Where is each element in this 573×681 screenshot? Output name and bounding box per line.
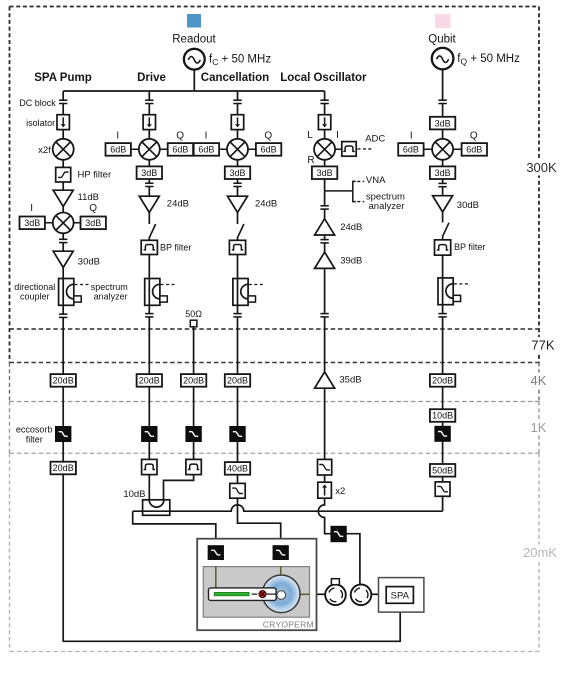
- svg-text:I: I: [116, 131, 119, 142]
- svg-text:6dB: 6dB: [261, 145, 277, 155]
- svg-text:6dB: 6dB: [110, 145, 126, 155]
- svg-text:30dB: 30dB: [457, 200, 479, 211]
- svg-text:Q: Q: [176, 131, 184, 142]
- svg-text:directional: directional: [14, 282, 55, 292]
- svg-text:3dB: 3dB: [85, 218, 101, 228]
- svg-text:3dB: 3dB: [317, 168, 333, 178]
- svg-text:Q: Q: [89, 203, 97, 214]
- svg-text:300K: 300K: [526, 160, 557, 175]
- svg-text:6dB: 6dB: [403, 145, 419, 155]
- svg-text:x2: x2: [335, 486, 345, 497]
- svg-text:BP filter: BP filter: [454, 242, 485, 252]
- svg-text:coupler: coupler: [20, 291, 50, 301]
- svg-text:analyzer: analyzer: [94, 291, 128, 301]
- svg-text:10dB: 10dB: [123, 489, 145, 500]
- svg-text:Readout: Readout: [172, 33, 216, 45]
- svg-text:24dB: 24dB: [255, 198, 277, 209]
- svg-text:x2f: x2f: [38, 145, 51, 156]
- svg-text:20dB: 20dB: [183, 376, 204, 386]
- svg-text:20dB: 20dB: [139, 376, 160, 386]
- svg-text:50Ω: 50Ω: [185, 309, 202, 319]
- svg-text:Drive: Drive: [137, 72, 166, 84]
- svg-text:3dB: 3dB: [435, 168, 451, 178]
- svg-text:SPA Pump: SPA Pump: [34, 72, 92, 84]
- svg-text:Cancellation: Cancellation: [201, 72, 269, 84]
- svg-text:spectrum: spectrum: [91, 282, 128, 292]
- svg-text:VNA: VNA: [366, 175, 386, 186]
- svg-text:Q: Q: [470, 131, 478, 142]
- svg-text:eccosorb: eccosorb: [16, 424, 53, 434]
- svg-text:isolator: isolator: [26, 118, 55, 128]
- svg-text:20dB: 20dB: [432, 376, 453, 386]
- svg-text:20dB: 20dB: [53, 463, 74, 473]
- svg-text:L: L: [307, 130, 313, 141]
- svg-text:I: I: [336, 130, 339, 141]
- svg-text:ADC: ADC: [365, 134, 385, 145]
- svg-text:10dB: 10dB: [432, 411, 453, 421]
- svg-text:35dB: 35dB: [339, 374, 361, 385]
- svg-text:fQ + 50 MHz: fQ + 50 MHz: [457, 53, 520, 67]
- svg-text:Q: Q: [264, 131, 272, 142]
- svg-text:BP filter: BP filter: [160, 243, 191, 253]
- svg-text:SPA: SPA: [391, 591, 410, 602]
- svg-text:3dB: 3dB: [229, 168, 245, 178]
- svg-text:Local Oscillator: Local Oscillator: [280, 72, 367, 84]
- svg-text:Qubit: Qubit: [428, 33, 456, 45]
- svg-text:6dB: 6dB: [466, 145, 482, 155]
- svg-text:6dB: 6dB: [172, 145, 188, 155]
- svg-text:CRYOPERM: CRYOPERM: [263, 620, 314, 630]
- svg-text:R: R: [307, 155, 314, 166]
- svg-text:DC block: DC block: [19, 98, 56, 108]
- svg-text:1K: 1K: [531, 420, 547, 435]
- svg-text:11dB: 11dB: [78, 192, 99, 203]
- svg-text:I: I: [410, 131, 413, 142]
- svg-text:4K: 4K: [531, 373, 547, 388]
- svg-text:fC + 50 MHz: fC + 50 MHz: [209, 53, 271, 67]
- svg-text:24dB: 24dB: [340, 222, 362, 233]
- svg-text:I: I: [205, 131, 208, 142]
- svg-text:77K: 77K: [531, 338, 554, 353]
- svg-text:20dB: 20dB: [53, 376, 74, 386]
- svg-text:3dB: 3dB: [24, 218, 40, 228]
- svg-text:filter: filter: [26, 435, 43, 445]
- svg-text:30dB: 30dB: [78, 256, 100, 267]
- svg-text:24dB: 24dB: [167, 198, 189, 209]
- svg-text:HP filter: HP filter: [78, 169, 112, 180]
- svg-text:20dB: 20dB: [227, 376, 248, 386]
- svg-text:6dB: 6dB: [198, 145, 214, 155]
- svg-text:50dB: 50dB: [432, 466, 453, 476]
- svg-text:3dB: 3dB: [435, 118, 451, 128]
- svg-text:analyzer: analyzer: [369, 201, 405, 212]
- svg-text:40dB: 40dB: [227, 464, 248, 474]
- svg-text:3dB: 3dB: [141, 168, 157, 178]
- svg-text:20mK: 20mK: [523, 545, 557, 560]
- svg-text:39dB: 39dB: [340, 256, 362, 267]
- svg-text:I: I: [30, 203, 33, 214]
